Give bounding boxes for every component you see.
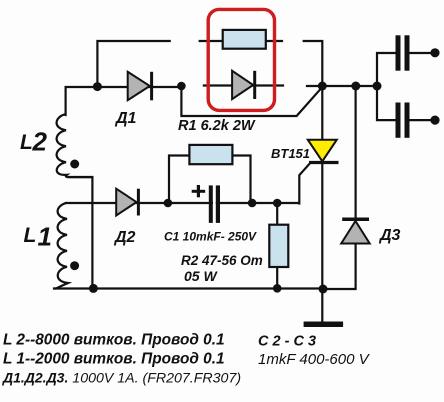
svg-text:1mkF 400-600 V: 1mkF 400-600 V (258, 351, 371, 368)
svg-text:C 2 - C 3: C 2 - C 3 (258, 334, 316, 350)
svg-text:Д1.Д2.Д3. 1000V 1A. (FR207.FR3: Д1.Д2.Д3. 1000V 1A. (FR207.FR307) (2, 370, 241, 387)
svg-text:L 1--2000 витков. Провод 0.1: L 1--2000 витков. Провод 0.1 (3, 351, 225, 368)
svg-text:Д2: Д2 (113, 229, 136, 246)
svg-text:R2 47-56 Om: R2 47-56 Om (181, 253, 263, 268)
svg-text:L 2--8000 витков. Провод 0.1: L 2--8000 витков. Провод 0.1 (3, 332, 225, 349)
svg-text:Д1: Д1 (114, 110, 137, 127)
svg-text:L: L (20, 131, 33, 154)
svg-text:Д3: Д3 (378, 227, 401, 244)
svg-text:BT151: BT151 (271, 146, 310, 161)
svg-text:R1 6.2k 2W: R1 6.2k 2W (178, 118, 256, 134)
svg-text:L: L (24, 224, 37, 247)
svg-text:05 W: 05 W (184, 268, 218, 284)
svg-text:C1 10mkF- 250V: C1 10mkF- 250V (164, 230, 257, 244)
svg-text:2: 2 (32, 127, 48, 157)
svg-text:1: 1 (38, 222, 52, 252)
